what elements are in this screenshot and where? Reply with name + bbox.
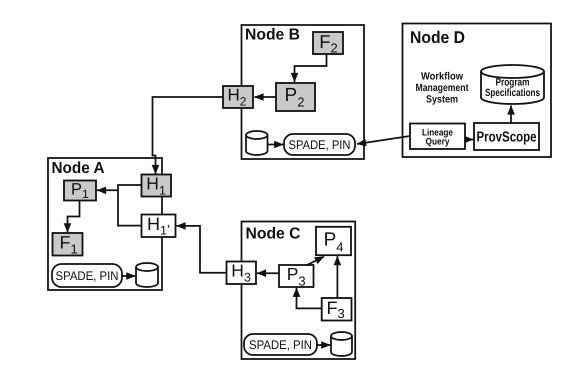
box H2 — [223, 86, 253, 109]
node A label — [52, 160, 105, 177]
cylinder ProgramSpecifications — [481, 65, 544, 104]
box F1 — [53, 233, 83, 257]
wire H2 to H1 — [153, 97, 225, 174]
cylinder node C — [331, 332, 352, 356]
box ProvScope — [474, 123, 539, 150]
cylinder node B — [246, 131, 268, 155]
svg-text:Node A: Node A — [52, 160, 105, 177]
wire LineageQuery to spadeB — [357, 136, 410, 144]
cylinder node A — [136, 263, 158, 287]
wire ProvScope to ProgramSpecifications — [510, 106, 512, 124]
wire P2 to H2 — [255, 96, 277, 98]
wire F3 to P3 — [297, 288, 323, 309]
spade pin node A — [52, 264, 122, 287]
svg-text:System: System — [426, 94, 458, 106]
svg-text:SPADE, PIN: SPADE, PIN — [56, 269, 119, 283]
svg-text:Management: Management — [416, 82, 469, 94]
node C rect — [242, 222, 356, 360]
wire spadeA to cylinderA — [123, 275, 136, 277]
node D rect — [403, 24, 552, 158]
box LineageQuery — [410, 124, 465, 150]
box H3 — [227, 261, 257, 285]
box P4 — [316, 227, 351, 255]
svg-text:Node D: Node D — [410, 28, 465, 47]
box F2 — [313, 31, 343, 55]
wire cylinderB to spadeB — [268, 144, 284, 146]
svg-text:Node C: Node C — [246, 226, 301, 243]
wire F2 to P2 — [295, 55, 327, 83]
box H1-prime — [142, 214, 176, 238]
wire P3 to P4 — [305, 257, 325, 267]
wire H3 to H1-prime — [177, 226, 228, 273]
svg-text:SPADE, PIN: SPADE, PIN — [249, 338, 312, 352]
node C label — [246, 226, 301, 243]
wire P3 to H3 — [257, 272, 280, 274]
svg-text:Specifications: Specifications — [485, 87, 540, 99]
svg-text:Query: Query — [426, 137, 451, 148]
svg-text:SPADE, PIN: SPADE, PIN — [289, 138, 351, 152]
node D label — [410, 28, 465, 47]
node B rect — [242, 25, 365, 159]
spade pin node B — [284, 134, 355, 155]
wire LineageQuery to ProvScope — [465, 139, 473, 141]
node A rect — [48, 158, 162, 290]
box P1 — [64, 180, 96, 201]
spade pin node C — [244, 334, 317, 355]
wire P1 to F1 — [68, 201, 80, 233]
box H1 — [142, 173, 172, 197]
box F3 — [322, 298, 352, 321]
svg-text:Workflow: Workflow — [421, 71, 464, 83]
wire H1 to elbow — [118, 185, 142, 226]
wire F3 to P4 — [336, 256, 338, 298]
wire elbow to P1 — [97, 189, 118, 191]
box P2 — [276, 83, 315, 111]
workflow management system label — [416, 71, 469, 106]
node B label — [245, 27, 300, 44]
wire spadeC to cylinderC — [318, 344, 331, 346]
svg-text:ProvScope: ProvScope — [477, 130, 537, 146]
box P3 — [279, 264, 314, 289]
svg-text:Node B: Node B — [245, 27, 300, 44]
